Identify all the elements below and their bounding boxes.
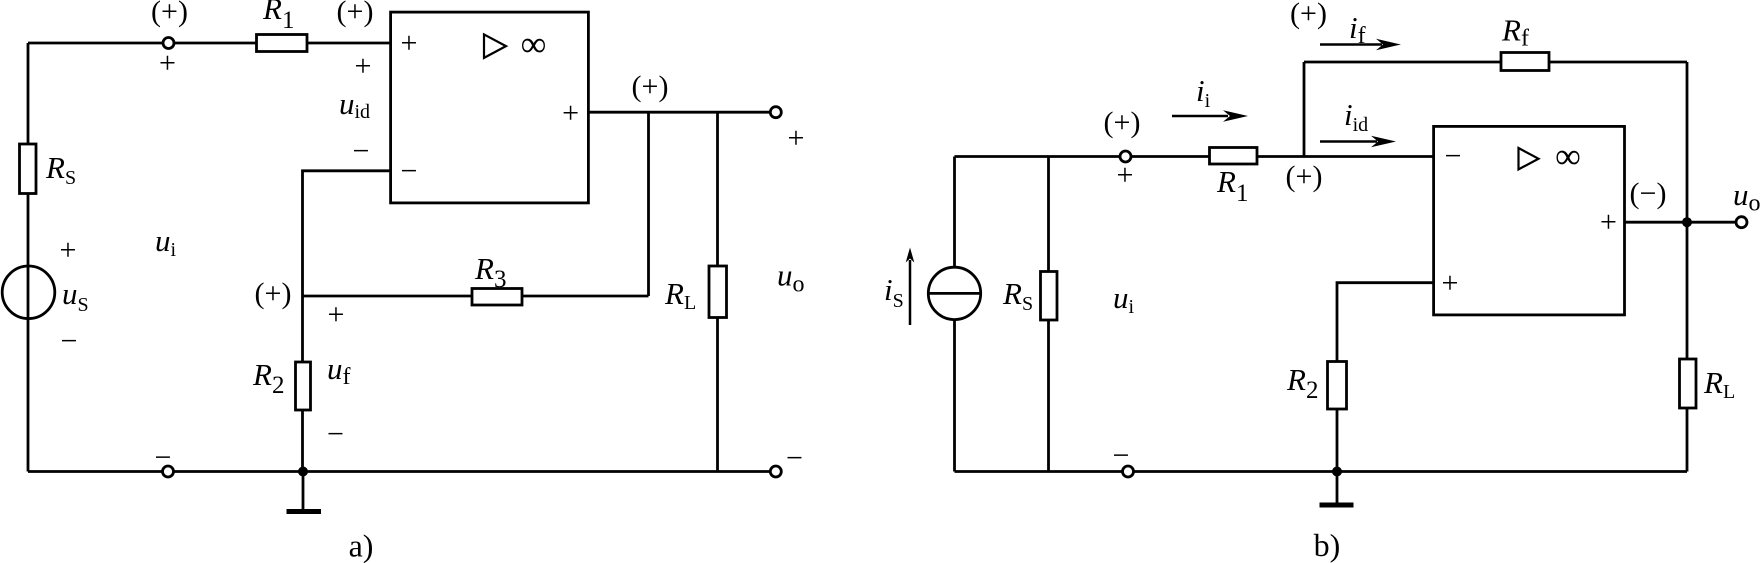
wire: circuit b left vertical below source [953, 320, 956, 472]
resistor R3 (circuit a) [472, 289, 522, 306]
resistor RL (circuit a) [709, 266, 727, 318]
op-amp U1 (circuit a, ideal block) [391, 12, 589, 203]
output terminal circle circuit a [770, 107, 781, 118]
svg-text:+: + [355, 50, 372, 83]
svg-text:∞: ∞ [521, 24, 547, 64]
svg-text:+: + [1117, 159, 1134, 192]
ground symbol circuit b [1320, 472, 1354, 506]
svg-text:+: + [1442, 267, 1459, 300]
bottom terminal circle circuit b [1123, 466, 1134, 477]
wire: top feedback wire through Rf [1304, 61, 1687, 64]
svg-text:∞: ∞ [1555, 136, 1581, 176]
wire: right vertical from feedback to bottom through RL [1686, 62, 1689, 472]
wire: circuit a output wire [588, 111, 775, 114]
svg-text:−: − [1445, 140, 1462, 173]
wire: R3 horizontal feedback wire [303, 295, 649, 298]
svg-text:b): b) [1314, 527, 1341, 563]
resistor R1 (circuit a) [257, 35, 308, 52]
svg-text:(+): (+) [1104, 106, 1141, 139]
op-amp U2 triangle symbol [1519, 148, 1539, 169]
current arrow if [1320, 39, 1401, 50]
wire: circuit b left vertical above source [953, 157, 956, 268]
input terminal node (+) circuit a [163, 38, 174, 49]
bottom-left terminal circle circuit a [163, 466, 174, 477]
op-amp U2 (circuit b, ideal block) [1434, 126, 1625, 315]
svg-text:(+): (+) [337, 0, 374, 28]
svg-text:(+): (+) [151, 0, 188, 28]
svg-text:+: + [562, 97, 579, 130]
wire: RS branch vertical circuit b [1047, 157, 1050, 472]
resistor R2 (circuit b) [1328, 362, 1347, 410]
current source iS (circle with bar) [928, 267, 980, 319]
current arrow iid [1320, 136, 1396, 147]
wire: circuit a top wire from source to op-amp + input [28, 42, 391, 45]
svg-text:−: − [401, 155, 418, 188]
svg-text:(−): (−) [1630, 177, 1667, 210]
bottom-right terminal circle circuit a [770, 466, 781, 477]
svg-text:+: + [60, 234, 77, 267]
resistor RS (circuit a) [20, 144, 37, 194]
wire: circuit b main input wire to op-amp - input [955, 155, 1434, 158]
svg-text:(+): (+) [632, 70, 669, 103]
op-amp U1 triangle symbol [484, 34, 506, 58]
junction dot at R2/ground node a [298, 467, 308, 477]
svg-text:−: − [61, 325, 78, 358]
wire: circuit a bottom ground rail [28, 470, 776, 473]
svg-text:+: + [328, 298, 345, 331]
svg-text:−: − [786, 442, 803, 475]
svg-text:a): a) [349, 528, 374, 563]
junction dot output node b [1682, 217, 1692, 227]
output terminal circle circuit b [1736, 217, 1747, 228]
resistor RL (circuit b) [1680, 359, 1697, 408]
current source iS diameter bar [928, 292, 980, 295]
wire: circuit b output wire [1625, 221, 1742, 224]
voltage source uS (circle, wire passes through) [2, 266, 55, 319]
current source iS direction arrow [906, 248, 915, 326]
svg-text:+: + [788, 122, 805, 155]
svg-text:(+): (+) [1290, 0, 1327, 30]
resistor R2 (circuit a) [296, 362, 311, 410]
resistor RS (circuit b) [1041, 272, 1058, 321]
svg-text:(+): (+) [255, 277, 292, 310]
svg-text:(+): (+) [1286, 160, 1323, 193]
ground symbol circuit a [287, 472, 322, 512]
wire: op-amp a inverting input stub and feedback riser [303, 171, 391, 296]
junction dot at R2/ground node b [1332, 467, 1342, 477]
svg-text:−: − [155, 441, 172, 474]
resistor R1 (circuit b) [1210, 148, 1258, 165]
svg-text:+: + [159, 47, 176, 80]
wire: RL branch vertical circuit a [716, 112, 719, 471]
input terminal circle circuit b [1120, 151, 1131, 162]
wire: R3 riser to output wire [647, 112, 650, 296]
wire: R2 branch vertical circuit a [301, 296, 304, 472]
wire: feedback riser from R1 node [1303, 62, 1306, 157]
svg-text:−: − [327, 418, 344, 451]
wire: circuit b bottom ground rail [955, 470, 1688, 473]
wire: circuit a left vertical wire through Rs and source [27, 43, 30, 472]
svg-text:−: − [1113, 439, 1130, 472]
svg-text:−: − [353, 135, 370, 168]
resistor Rf [1501, 53, 1549, 71]
current arrow ii [1172, 110, 1248, 121]
svg-text:+: + [1600, 206, 1617, 239]
wire: op-amp b + input jog and R2 branch [1337, 283, 1434, 472]
svg-text:+: + [401, 27, 418, 60]
